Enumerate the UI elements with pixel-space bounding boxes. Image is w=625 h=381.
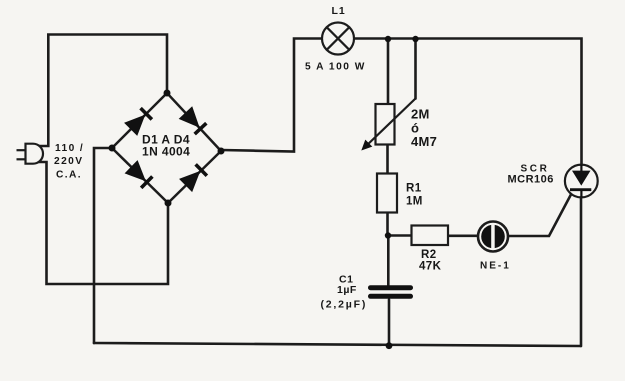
node bridge left vertex bbox=[109, 145, 116, 152]
bridge rectifier D1 A D4 bbox=[112, 93, 221, 203]
node junction wiper feed bbox=[412, 36, 418, 42]
wire plug top lead to bridge top vertex bbox=[36, 35, 167, 147]
svg-text:110 /: 110 / bbox=[55, 143, 84, 154]
wire bridge right vertex to lamp bbox=[221, 39, 322, 152]
label R2 47K bbox=[419, 249, 442, 273]
potentiometer wiper arrow bbox=[365, 99, 416, 148]
diode D4 (bottom-right) bbox=[180, 164, 207, 191]
resistor R1 bbox=[377, 174, 397, 213]
svg-text:1M: 1M bbox=[406, 195, 423, 207]
wire pot bottom lead to R1 bbox=[386, 145, 389, 174]
capacitor C1 bbox=[371, 288, 411, 297]
resistor R2 bbox=[412, 226, 449, 246]
wire plug bottom lead to bridge bottom vertex bbox=[36, 162, 168, 284]
svg-text:R1: R1 bbox=[406, 183, 422, 195]
wire pot wiper feed from top wire bbox=[414, 39, 417, 99]
diode D1 (top-left) bbox=[125, 108, 152, 135]
svg-text:220V: 220V bbox=[54, 156, 83, 167]
wire C1 bottom plate to rail bbox=[388, 300, 391, 346]
wire pot top lead bbox=[387, 39, 390, 104]
wire lamp to SCR top corner bbox=[354, 39, 582, 165]
svg-text:(2,2µF): (2,2µF) bbox=[321, 299, 368, 311]
node bridge right vertex bbox=[218, 148, 225, 155]
neon lamp NE-1 bbox=[478, 222, 508, 252]
label R1 1M bbox=[406, 183, 423, 208]
svg-text:5 A 100 W: 5 A 100 W bbox=[305, 62, 366, 73]
wire junction to R2 bbox=[388, 234, 412, 237]
wire NE-1 to SCR gate bbox=[508, 191, 573, 236]
svg-text:C.A.: C.A. bbox=[56, 170, 82, 181]
svg-text:L1: L1 bbox=[332, 5, 346, 17]
diode D2 (top-right) bbox=[180, 107, 207, 134]
svg-text:NE-1: NE-1 bbox=[480, 260, 511, 271]
node junction C1/rail bbox=[386, 342, 393, 349]
AC plug bbox=[17, 144, 44, 164]
label 110/220V C.A. bbox=[54, 143, 84, 181]
wire bridge left vertex to bottom rail bbox=[94, 148, 112, 343]
wire junction to C1 top plate bbox=[387, 236, 390, 286]
wire R1 bottom to junction bbox=[386, 213, 389, 236]
node bridge top vertex bbox=[164, 90, 171, 97]
wire R2 to NE-1 bbox=[448, 235, 478, 238]
svg-text:R2: R2 bbox=[421, 249, 437, 261]
svg-text:1N 4004: 1N 4004 bbox=[142, 145, 190, 159]
node bridge bottom vertex bbox=[165, 200, 172, 207]
svg-text:4M7: 4M7 bbox=[411, 134, 437, 149]
potentiometer 2M/4M7 bbox=[376, 104, 395, 145]
diode D3 (bottom-left) bbox=[125, 161, 152, 188]
SCR U1 MCR106 bbox=[565, 165, 598, 198]
svg-text:MCR106: MCR106 bbox=[508, 174, 554, 186]
node junction R1/R2/C1 bbox=[385, 232, 391, 238]
lamp L1 bbox=[322, 23, 354, 55]
svg-text:47K: 47K bbox=[419, 260, 442, 272]
label 2M / o / 4M7 bbox=[411, 107, 437, 149]
wire bottom rail bbox=[94, 343, 581, 346]
label C1 1uF (2,2uF) bbox=[321, 273, 368, 310]
label D1 A D4 / 1N4004 bbox=[142, 132, 190, 158]
wire SCR bottom to rail bbox=[580, 198, 583, 347]
node junction lamp/pot bbox=[385, 36, 391, 42]
svg-text:1µF: 1µF bbox=[337, 284, 357, 296]
